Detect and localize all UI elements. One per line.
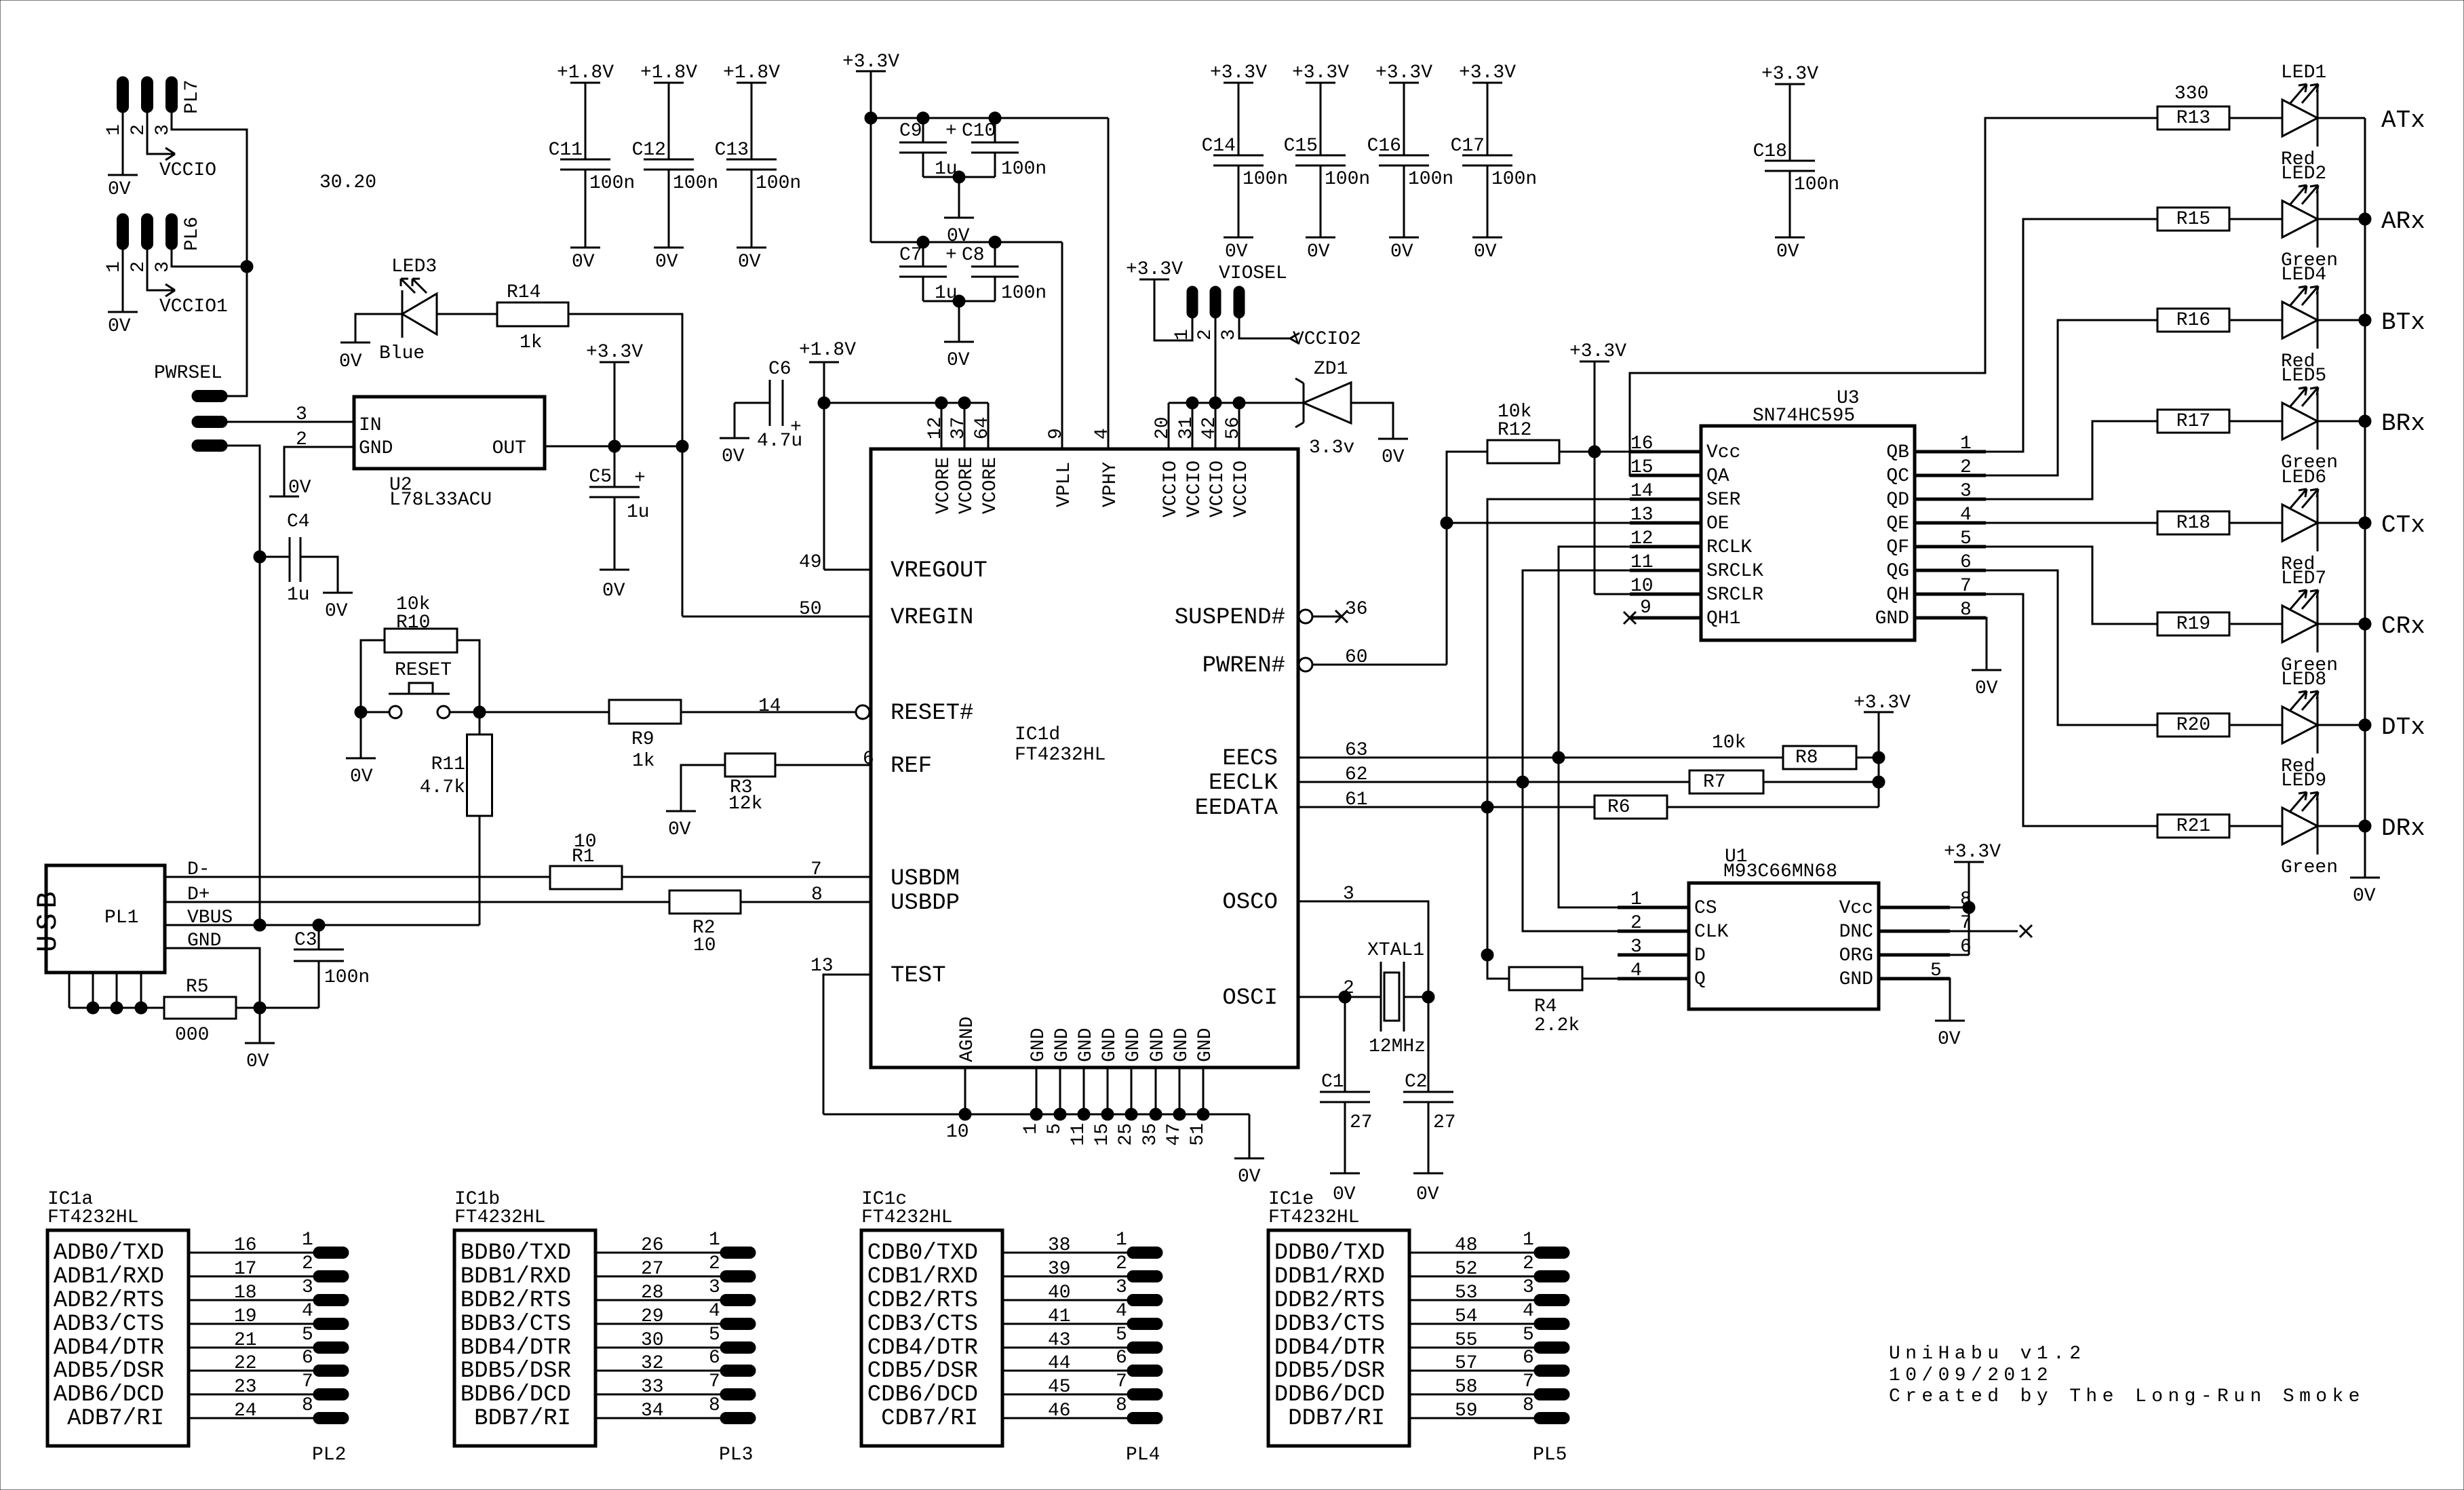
svg-text:EECLK: EECLK — [1209, 770, 1278, 796]
svg-text:1u: 1u — [287, 585, 310, 606]
svg-text:GND: GND — [1148, 1028, 1169, 1062]
svg-text:11: 11 — [1068, 1123, 1089, 1146]
svg-text:QF: QF — [1886, 537, 1909, 558]
svg-text:6: 6 — [302, 1348, 313, 1369]
svg-text:8: 8 — [1116, 1395, 1127, 1416]
svg-text:BDB4/DTR: BDB4/DTR — [461, 1335, 571, 1361]
svg-text:SN74HC595: SN74HC595 — [1753, 406, 1855, 427]
svg-text:GND: GND — [1123, 1028, 1144, 1062]
svg-text:Q: Q — [1694, 969, 1706, 990]
svg-text:+: + — [945, 245, 957, 266]
svg-text:27: 27 — [1433, 1112, 1456, 1133]
svg-text:57: 57 — [1455, 1353, 1478, 1374]
svg-text:3: 3 — [296, 404, 307, 425]
svg-text:100n: 100n — [324, 967, 370, 988]
svg-text:R7: R7 — [1703, 772, 1726, 793]
svg-text:+3.3V: +3.3V — [1854, 692, 1911, 713]
svg-text:VREGOUT: VREGOUT — [891, 558, 987, 584]
svg-text:2: 2 — [1343, 978, 1354, 999]
svg-text:7: 7 — [302, 1371, 313, 1392]
svg-text:+3.3V: +3.3V — [586, 342, 643, 363]
svg-text:VCORE: VCORE — [933, 457, 954, 514]
svg-text:SRCLK: SRCLK — [1706, 561, 1763, 582]
svg-text:BDB1/RXD: BDB1/RXD — [461, 1264, 571, 1290]
svg-text:VCCIO: VCCIO — [1231, 460, 1252, 517]
svg-text:D: D — [1694, 945, 1706, 966]
svg-text:QC: QC — [1886, 466, 1909, 487]
svg-text:LED8: LED8 — [2281, 669, 2326, 690]
svg-text:DDB4/DTR: DDB4/DTR — [1274, 1335, 1385, 1361]
svg-text:BDB5/DSR: BDB5/DSR — [461, 1358, 571, 1384]
svg-text:0V: 0V — [1307, 241, 1330, 262]
svg-text:GND: GND — [1052, 1028, 1073, 1062]
svg-text:1: 1 — [709, 1230, 720, 1251]
svg-text:USB: USB — [32, 886, 64, 952]
svg-text:42: 42 — [1199, 416, 1220, 439]
svg-text:GND: GND — [359, 438, 393, 459]
svg-text:LED4: LED4 — [2281, 264, 2326, 286]
svg-text:ATx: ATx — [2381, 106, 2425, 134]
svg-text:5: 5 — [709, 1325, 720, 1346]
svg-text:1k: 1k — [520, 332, 543, 353]
svg-text:3: 3 — [1219, 329, 1240, 340]
svg-text:R5: R5 — [186, 977, 209, 998]
svg-text:28: 28 — [641, 1282, 664, 1303]
svg-text:9: 9 — [1046, 428, 1067, 439]
svg-text:CDB2/RTS: CDB2/RTS — [867, 1288, 978, 1314]
svg-text:QG: QG — [1886, 561, 1909, 582]
svg-text:+1.8V: +1.8V — [557, 62, 614, 83]
svg-text:DDB1/RXD: DDB1/RXD — [1274, 1264, 1385, 1290]
svg-text:BDB7/RI: BDB7/RI — [474, 1406, 571, 1432]
svg-text:+3.3V: +3.3V — [1569, 341, 1626, 362]
svg-text:0V: 0V — [572, 252, 595, 273]
svg-text:44: 44 — [1048, 1353, 1071, 1374]
svg-text:0V: 0V — [722, 446, 745, 467]
svg-text:6: 6 — [1523, 1348, 1534, 1369]
svg-text:0V: 0V — [668, 819, 691, 840]
svg-text:32: 32 — [641, 1353, 664, 1374]
svg-text:DDB5/DSR: DDB5/DSR — [1274, 1358, 1385, 1384]
svg-text:100n: 100n — [756, 173, 801, 194]
svg-text:5: 5 — [302, 1325, 313, 1346]
svg-text:0V: 0V — [1225, 241, 1248, 262]
svg-text:GND: GND — [1028, 1028, 1049, 1062]
svg-text:52: 52 — [1455, 1259, 1478, 1280]
svg-text:QH1: QH1 — [1706, 608, 1740, 629]
svg-text:C3: C3 — [294, 930, 317, 951]
svg-text:10k: 10k — [1712, 732, 1746, 753]
svg-text:DRx: DRx — [2381, 815, 2425, 842]
svg-text:3: 3 — [1523, 1277, 1534, 1298]
svg-text:OUT: OUT — [492, 438, 526, 459]
svg-text:4: 4 — [709, 1301, 720, 1322]
svg-text:CTx: CTx — [2381, 511, 2425, 539]
svg-text:10: 10 — [693, 935, 716, 956]
svg-text:1: 1 — [104, 261, 125, 273]
svg-text:PWRSEL: PWRSEL — [154, 363, 222, 384]
svg-text:DDB7/RI: DDB7/RI — [1288, 1406, 1385, 1432]
svg-text:ZD1: ZD1 — [1314, 359, 1348, 380]
svg-text:36: 36 — [1345, 599, 1368, 620]
svg-text:C4: C4 — [287, 511, 310, 532]
svg-text:14: 14 — [758, 696, 781, 717]
svg-text:C18: C18 — [1753, 141, 1787, 162]
svg-text:R9: R9 — [631, 729, 654, 750]
svg-text:100n: 100n — [1243, 169, 1288, 190]
svg-text:+3.3V: +3.3V — [1126, 259, 1183, 280]
svg-text:CDB1/RXD: CDB1/RXD — [867, 1264, 978, 1290]
svg-text:0V: 0V — [1474, 241, 1497, 262]
svg-text:PL5: PL5 — [1533, 1445, 1567, 1466]
svg-text:PL3: PL3 — [719, 1445, 753, 1466]
svg-text:CDB6/DCD: CDB6/DCD — [867, 1382, 978, 1408]
svg-text:58: 58 — [1455, 1377, 1478, 1398]
svg-text:10/09/2012: 10/09/2012 — [1889, 1365, 2053, 1386]
svg-text:ORG: ORG — [1839, 945, 1873, 966]
svg-text:0V: 0V — [1390, 241, 1413, 262]
svg-text:1: 1 — [1116, 1230, 1127, 1251]
svg-text:22: 22 — [234, 1353, 257, 1374]
svg-text:0V: 0V — [350, 766, 373, 787]
svg-text:FT4232HL: FT4232HL — [1015, 745, 1106, 766]
svg-text:LED9: LED9 — [2281, 770, 2326, 791]
svg-text:CRx: CRx — [2381, 612, 2425, 640]
svg-text:3: 3 — [709, 1277, 720, 1298]
svg-text:CDB0/TXD: CDB0/TXD — [867, 1240, 978, 1266]
svg-text:CS: CS — [1694, 898, 1717, 919]
svg-text:CDB5/DSR: CDB5/DSR — [867, 1358, 978, 1384]
svg-text:PL7: PL7 — [182, 80, 203, 114]
svg-text:37: 37 — [948, 416, 969, 439]
svg-text:63: 63 — [1345, 740, 1368, 761]
svg-text:31: 31 — [1176, 416, 1197, 439]
svg-text:SRCLR: SRCLR — [1706, 585, 1763, 606]
svg-text:2: 2 — [128, 261, 149, 273]
svg-text:OSCO: OSCO — [1222, 890, 1278, 916]
svg-text:VCCIO: VCCIO — [159, 160, 216, 181]
svg-text:7: 7 — [1523, 1371, 1534, 1392]
svg-text:ADB2/RTS: ADB2/RTS — [54, 1288, 164, 1314]
svg-text:48: 48 — [1455, 1235, 1478, 1256]
svg-text:100n: 100n — [1491, 169, 1537, 190]
svg-text:QE: QE — [1886, 513, 1909, 534]
svg-text:24: 24 — [234, 1400, 257, 1422]
svg-text:LED7: LED7 — [2281, 568, 2326, 589]
svg-text:29: 29 — [641, 1306, 664, 1327]
svg-text:100n: 100n — [1325, 169, 1370, 190]
svg-text:PL2: PL2 — [312, 1445, 346, 1466]
svg-text:C2: C2 — [1405, 1072, 1428, 1093]
svg-text:ADB6/DCD: ADB6/DCD — [54, 1382, 164, 1408]
svg-text:C7: C7 — [899, 245, 922, 266]
svg-text:M93C66MN68: M93C66MN68 — [1723, 861, 1837, 882]
svg-text:5: 5 — [1523, 1325, 1534, 1346]
svg-text:VPHY: VPHY — [1100, 462, 1121, 507]
svg-text:FT4232HL: FT4232HL — [47, 1207, 138, 1228]
svg-text:5: 5 — [1116, 1325, 1127, 1346]
svg-text:43: 43 — [1048, 1330, 1071, 1351]
svg-text:100n: 100n — [673, 173, 718, 194]
svg-text:0V: 0V — [738, 252, 761, 273]
svg-text:FT4232HL: FT4232HL — [1268, 1207, 1359, 1228]
svg-text:1u: 1u — [935, 159, 958, 180]
svg-text:21: 21 — [234, 1330, 257, 1351]
svg-text:LED5: LED5 — [2281, 366, 2326, 387]
svg-text:26: 26 — [641, 1235, 664, 1256]
svg-text:FT4232HL: FT4232HL — [454, 1207, 545, 1228]
svg-text:DTx: DTx — [2381, 713, 2425, 741]
svg-text:C1: C1 — [1321, 1072, 1344, 1093]
svg-text:EECS: EECS — [1222, 746, 1278, 772]
svg-text:VIOSEL: VIOSEL — [1219, 263, 1287, 284]
svg-text:Green: Green — [2281, 857, 2338, 878]
svg-text:3: 3 — [153, 124, 174, 136]
svg-text:23: 23 — [234, 1377, 257, 1398]
svg-text:7: 7 — [810, 859, 822, 880]
svg-text:C14: C14 — [1202, 136, 1236, 157]
svg-text:2.2k: 2.2k — [1534, 1015, 1580, 1036]
svg-text:3: 3 — [1116, 1277, 1127, 1298]
svg-text:RESET#: RESET# — [891, 701, 973, 726]
svg-text:+: + — [790, 417, 802, 438]
svg-text:55: 55 — [1455, 1330, 1478, 1351]
svg-text:25: 25 — [1116, 1123, 1137, 1146]
svg-text:53: 53 — [1455, 1282, 1478, 1303]
svg-text:BDB0/TXD: BDB0/TXD — [461, 1240, 571, 1266]
svg-text:EEDATA: EEDATA — [1195, 796, 1278, 821]
svg-text:47: 47 — [1164, 1123, 1185, 1146]
svg-text:0V: 0V — [246, 1051, 269, 1072]
svg-text:Vcc: Vcc — [1706, 442, 1740, 463]
svg-text:40: 40 — [1048, 1282, 1071, 1303]
svg-text:12MHz: 12MHz — [1369, 1036, 1426, 1057]
svg-text:0V: 0V — [108, 316, 131, 337]
svg-text:ADB3/CTS: ADB3/CTS — [54, 1312, 164, 1337]
svg-text:45: 45 — [1048, 1377, 1071, 1398]
svg-text:C17: C17 — [1451, 136, 1485, 157]
svg-text:C11: C11 — [549, 140, 583, 161]
svg-text:ARx: ARx — [2381, 208, 2425, 235]
svg-text:QH: QH — [1886, 585, 1909, 606]
svg-text:0V: 0V — [339, 351, 362, 372]
svg-text:38: 38 — [1048, 1235, 1071, 1256]
svg-text:GND: GND — [1171, 1028, 1192, 1062]
svg-text:8: 8 — [709, 1395, 720, 1416]
svg-text:GND: GND — [1875, 608, 1909, 629]
svg-text:0V: 0V — [1938, 1029, 1961, 1050]
svg-text:+3.3V: +3.3V — [842, 52, 899, 73]
svg-text:LED3: LED3 — [391, 256, 437, 277]
svg-text:PL4: PL4 — [1126, 1445, 1160, 1466]
svg-text:LED2: LED2 — [2281, 163, 2326, 184]
svg-text:5: 5 — [1044, 1123, 1065, 1135]
svg-text:100n: 100n — [1001, 283, 1047, 304]
svg-text:6: 6 — [1116, 1348, 1127, 1369]
svg-text:PL6: PL6 — [182, 217, 203, 251]
svg-text:+1.8V: +1.8V — [799, 340, 856, 361]
svg-text:18: 18 — [234, 1282, 257, 1303]
svg-text:BDB2/RTS: BDB2/RTS — [461, 1288, 571, 1314]
svg-text:DDB0/TXD: DDB0/TXD — [1274, 1240, 1385, 1266]
svg-text:0V: 0V — [108, 179, 131, 200]
svg-text:8: 8 — [302, 1395, 313, 1416]
svg-text:0V: 0V — [655, 252, 678, 273]
svg-text:UniHabu v1.2: UniHabu v1.2 — [1889, 1344, 2086, 1365]
svg-text:51: 51 — [1188, 1123, 1209, 1146]
svg-text:R13: R13 — [2176, 108, 2210, 129]
svg-text:ADB4/DTR: ADB4/DTR — [54, 1335, 164, 1361]
svg-text:C6: C6 — [768, 359, 791, 380]
svg-text:+1.8V: +1.8V — [640, 62, 697, 83]
svg-text:PL1: PL1 — [104, 907, 138, 928]
svg-text:SER: SER — [1706, 490, 1741, 511]
svg-text:DNC: DNC — [1839, 922, 1873, 943]
svg-text:12k: 12k — [728, 793, 762, 815]
svg-text:19: 19 — [234, 1306, 257, 1327]
svg-text:1: 1 — [1172, 329, 1193, 340]
svg-text:OE: OE — [1706, 513, 1729, 534]
svg-text:20: 20 — [1152, 416, 1173, 439]
svg-text:VCCIO: VCCIO — [1160, 460, 1181, 517]
svg-text:62: 62 — [1345, 764, 1368, 785]
svg-text:60: 60 — [1345, 647, 1368, 668]
svg-text:CDB4/DTR: CDB4/DTR — [867, 1335, 978, 1361]
svg-text:QD: QD — [1886, 490, 1909, 511]
svg-text:27: 27 — [1350, 1112, 1373, 1133]
svg-text:+: + — [634, 468, 646, 489]
svg-text:3: 3 — [153, 261, 174, 273]
svg-text:TEST: TEST — [891, 963, 946, 989]
svg-text:C9: C9 — [899, 121, 922, 142]
svg-text:R6: R6 — [1607, 797, 1630, 818]
svg-text:2: 2 — [302, 1253, 313, 1274]
svg-text:FT4232HL: FT4232HL — [861, 1207, 952, 1228]
svg-text:VREGIN: VREGIN — [891, 605, 973, 631]
svg-text:CLK: CLK — [1694, 922, 1729, 943]
svg-text:VCCIO2: VCCIO2 — [1293, 329, 1361, 350]
svg-text:ADB0/TXD: ADB0/TXD — [54, 1240, 164, 1266]
svg-text:2: 2 — [128, 124, 149, 136]
svg-text:VCORE: VCORE — [980, 457, 1001, 514]
svg-text:L78L33ACU: L78L33ACU — [389, 490, 492, 511]
svg-text:4: 4 — [302, 1301, 313, 1322]
svg-text:0V: 0V — [1333, 1184, 1356, 1205]
svg-text:VCORE: VCORE — [956, 457, 977, 514]
svg-text:+3.3V: +3.3V — [1210, 62, 1267, 83]
svg-text:30: 30 — [641, 1330, 664, 1351]
svg-text:R8: R8 — [1795, 747, 1818, 768]
svg-text:4: 4 — [1116, 1301, 1127, 1322]
svg-text:16: 16 — [234, 1235, 257, 1256]
svg-text:39: 39 — [1048, 1259, 1071, 1280]
svg-text:100n: 100n — [1001, 159, 1047, 180]
svg-text:0V: 0V — [1776, 241, 1799, 262]
svg-text:+1.8V: +1.8V — [723, 62, 780, 83]
svg-text:+3.3V: +3.3V — [1944, 842, 2001, 863]
svg-text:0V: 0V — [1975, 678, 1998, 699]
svg-text:4: 4 — [1092, 428, 1113, 439]
svg-text:0V: 0V — [325, 601, 348, 622]
svg-text:USBDP: USBDP — [891, 890, 960, 916]
svg-text:R4: R4 — [1534, 996, 1557, 1017]
svg-text:BTx: BTx — [2381, 309, 2425, 336]
svg-text:2: 2 — [1523, 1253, 1534, 1274]
svg-text:+3.3V: +3.3V — [1292, 62, 1349, 83]
svg-text:Blue: Blue — [379, 343, 425, 364]
svg-text:R20: R20 — [2176, 715, 2210, 736]
svg-text:LED6: LED6 — [2281, 467, 2326, 488]
svg-text:41: 41 — [1048, 1306, 1071, 1327]
svg-text:LED1: LED1 — [2281, 62, 2326, 83]
svg-text:2: 2 — [709, 1253, 720, 1274]
svg-text:R14: R14 — [507, 282, 541, 303]
svg-text:VPLL: VPLL — [1054, 462, 1075, 507]
svg-text:RCLK: RCLK — [1706, 537, 1752, 558]
svg-text:100n: 100n — [589, 173, 635, 194]
svg-text:+3.3V: +3.3V — [1761, 64, 1818, 85]
svg-text:61: 61 — [1345, 789, 1368, 810]
svg-text:1k: 1k — [632, 751, 655, 772]
svg-text:33: 33 — [641, 1377, 664, 1398]
svg-text:GND: GND — [1099, 1028, 1120, 1062]
svg-text:0V: 0V — [1416, 1184, 1439, 1205]
svg-text:OSCI: OSCI — [1222, 985, 1278, 1011]
svg-text:R18: R18 — [2176, 513, 2210, 534]
svg-text:7: 7 — [709, 1371, 720, 1392]
svg-text:ADB1/RXD: ADB1/RXD — [54, 1264, 164, 1290]
svg-text:C12: C12 — [632, 140, 666, 161]
svg-text:17: 17 — [234, 1259, 257, 1280]
svg-text:7: 7 — [1116, 1371, 1127, 1392]
svg-text:QB: QB — [1886, 442, 1909, 463]
svg-text:RESET: RESET — [395, 660, 452, 681]
svg-text:0V: 0V — [288, 477, 311, 498]
svg-text:0V: 0V — [1382, 447, 1405, 468]
svg-text:DDB3/CTS: DDB3/CTS — [1274, 1312, 1385, 1337]
svg-text:SUSPEND#: SUSPEND# — [1175, 605, 1285, 631]
svg-text:XTAL1: XTAL1 — [1367, 940, 1424, 961]
svg-text:R19: R19 — [2176, 614, 2210, 635]
svg-text:2: 2 — [1116, 1253, 1127, 1274]
svg-text:0V: 0V — [947, 226, 970, 247]
svg-text:BRx: BRx — [2381, 410, 2425, 437]
svg-text:64: 64 — [972, 416, 993, 439]
svg-text:R1: R1 — [572, 846, 595, 867]
svg-text:GND: GND — [1839, 969, 1873, 990]
svg-text:3: 3 — [302, 1277, 313, 1298]
svg-text:000: 000 — [175, 1025, 209, 1046]
svg-text:GND: GND — [1195, 1028, 1216, 1062]
svg-text:34: 34 — [641, 1400, 664, 1422]
svg-text:+: + — [945, 121, 957, 142]
svg-text:330: 330 — [2174, 83, 2208, 104]
svg-text:IC1d: IC1d — [1015, 724, 1060, 745]
svg-text:1u: 1u — [935, 283, 958, 304]
svg-text:VCCIO1: VCCIO1 — [159, 296, 228, 317]
svg-text:3: 3 — [1343, 884, 1354, 905]
svg-text:30.20: 30.20 — [319, 172, 376, 193]
svg-text:1: 1 — [104, 124, 125, 136]
svg-text:ADB5/DSR: ADB5/DSR — [54, 1358, 164, 1384]
svg-text:100n: 100n — [1408, 169, 1453, 190]
svg-text:DDB2/RTS: DDB2/RTS — [1274, 1288, 1385, 1314]
svg-text:VCCIO: VCCIO — [1184, 460, 1205, 517]
svg-text:C16: C16 — [1367, 136, 1401, 157]
svg-text:IN: IN — [359, 415, 382, 436]
svg-text:+3.3V: +3.3V — [1459, 62, 1516, 83]
svg-text:6: 6 — [709, 1348, 720, 1369]
